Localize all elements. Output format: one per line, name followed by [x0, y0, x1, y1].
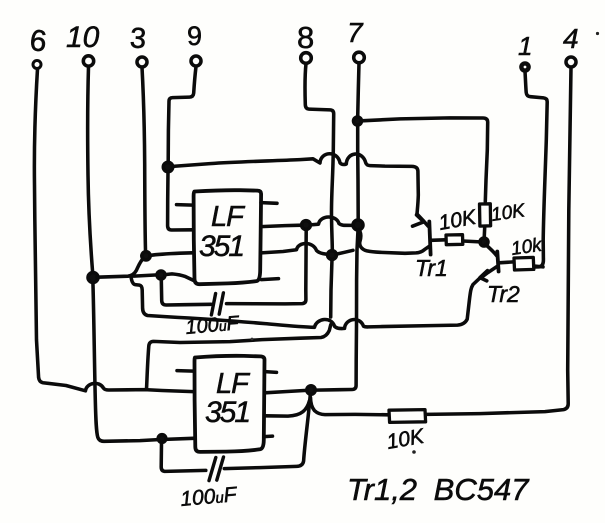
wire pin4 down and left to feedback resistor	[427, 68, 572, 415]
wire pin3 node to opamp1 second input	[150, 253, 193, 256]
svg-text:Tr2: Tr2	[487, 281, 520, 307]
junction dot cap1 left node	[157, 271, 165, 279]
op-amp U1 body	[194, 190, 262, 284]
transistor Q2 base bar	[497, 252, 498, 272]
junction dot node C	[480, 238, 488, 246]
wire pin8 lower continuation to wire A junction	[331, 259, 332, 317]
wire pin10 down to opamp2 lower input	[88, 67, 194, 442]
transistor Q2 collector wire	[499, 260, 514, 264]
resistor R1 body 10K	[446, 235, 463, 245]
junction dot A1	[302, 221, 311, 230]
op-amp U1 stub top-left	[177, 203, 194, 207]
pin 1 terminal	[521, 63, 528, 70]
wire pin9 jog down to top rail junction	[168, 67, 196, 162]
transistor Q2 emitter arrowhead	[480, 271, 488, 281]
capacitor C1 plate right	[219, 293, 223, 314]
wire top rail junction down to opamp1 first input	[168, 172, 193, 230]
junction dot A2	[353, 220, 363, 230]
junction dot pin3 node	[142, 252, 150, 260]
svg-text:1: 1	[518, 31, 532, 61]
wire node C diagonal to Tr2 base	[486, 245, 497, 256]
wire pin10 node right toward pin3 node	[97, 258, 144, 277]
wire branch down to wire A (Tr2 emitter net)	[131, 276, 480, 328]
pin 6 terminal	[33, 61, 41, 69]
wire node down to feedback resistor R4	[311, 398, 389, 415]
wire pin1 down to Tr2 collector resistor	[525, 71, 547, 267]
wire top rail to Tr1 collector with hops	[173, 154, 419, 214]
svg-text:Tr1,2 BC547: Tr1,2 BC547	[347, 472, 530, 507]
op-amp U2 stub bottom-right	[264, 434, 273, 438]
svg-text:10k: 10k	[510, 235, 545, 260]
junction dot pin7 upper	[354, 117, 362, 125]
transistor Q1 base bar	[429, 222, 430, 255]
wire pin7 long vertical down to opamp2 output node	[316, 63, 360, 390]
resistor R3 body 10k	[514, 257, 534, 270]
op-amp U2 stub top-right	[265, 370, 277, 374]
wire opamp2 lower-right pin to node	[265, 401, 310, 417]
wire opamp1 lower-right pin with hop to node B	[261, 243, 328, 254]
svg-text:10: 10	[66, 21, 100, 54]
transistor Q2 emitter diagonal	[481, 267, 497, 278]
op-amp U1 stub bottom-right	[262, 279, 279, 280]
op-amp U2 body	[195, 356, 265, 452]
resistor R4 body 10K feedback	[389, 410, 426, 423]
wire R3 to pin1 net	[534, 264, 543, 268]
pin 4 terminal	[566, 57, 576, 67]
ink speck top right	[596, 32, 599, 35]
junction dot opamp2 lower input node	[158, 435, 166, 443]
transistor Q1 base wire	[431, 238, 445, 242]
svg-text:9: 9	[187, 21, 202, 51]
capacitor C2 plate left	[209, 458, 216, 481]
junction dot pin10 node	[88, 273, 98, 283]
wire riser from pin6 net up to wire B	[147, 325, 331, 390]
wire R1 to node C	[463, 239, 480, 243]
transistor Q1 collector arrowhead	[413, 215, 424, 226]
wire opamp2 output pin to node	[265, 390, 307, 392]
wire node B right stub	[337, 250, 354, 254]
ink speck below R4 label	[412, 450, 416, 454]
svg-text:4: 4	[563, 23, 579, 54]
svg-text:7: 7	[347, 17, 364, 48]
junction dot top rail	[163, 162, 172, 171]
wire pin8 down with jog	[305, 64, 334, 251]
capacitor C1 plate left	[211, 294, 215, 315]
pin 8 terminal	[301, 53, 312, 64]
svg-text:Tr1: Tr1	[415, 255, 448, 281]
wire pin3 down to junction	[142, 67, 146, 250]
svg-text:351: 351	[205, 396, 249, 429]
wire pin6 down-left side to opamp2 input	[34, 69, 193, 392]
junction dot opamp2 output node	[307, 386, 315, 394]
capacitor C2 plate right	[217, 457, 224, 480]
svg-text:3: 3	[129, 22, 147, 55]
svg-text:6: 6	[28, 24, 48, 59]
wire continue right to cap1 node and opamp1 lower-left pin	[134, 275, 158, 276]
junction dot B	[328, 251, 337, 260]
wire cap1 node to opamp1 bottom-left pin	[165, 274, 194, 281]
op-amp U1 stub top-right	[261, 201, 277, 205]
ink speck near 100uF label	[251, 338, 254, 341]
wire pin7 junction right then down to 10K resistor R2	[362, 118, 488, 238]
wire cap2 left leg	[161, 443, 206, 472]
wire capacitor C1 left to cap1 node	[161, 280, 211, 306]
wire cap2 right leg up to output node	[224, 395, 310, 469]
svg-text:351: 351	[199, 230, 243, 263]
svg-text:8: 8	[297, 20, 314, 55]
pin 7 terminal	[354, 52, 365, 63]
op-amp U2 stub top-left	[177, 369, 194, 373]
pin 3 terminal	[137, 57, 147, 67]
pin 9 terminal	[191, 56, 201, 66]
pin 10 terminal	[83, 56, 93, 66]
resistor R2 body 10K vertical	[480, 204, 491, 226]
wire node A1 to node A2 with hop over pin8 wire	[311, 217, 354, 225]
op-amp U1 output wire to node A1	[261, 225, 302, 226]
wire S-curve from A2 down to Tr1 emitter	[359, 230, 430, 254]
wire node A1 down to capacitor C1	[227, 230, 307, 304]
svg-text:LF: LF	[211, 201, 246, 233]
transistor Q1 collector diagonal	[417, 214, 428, 226]
